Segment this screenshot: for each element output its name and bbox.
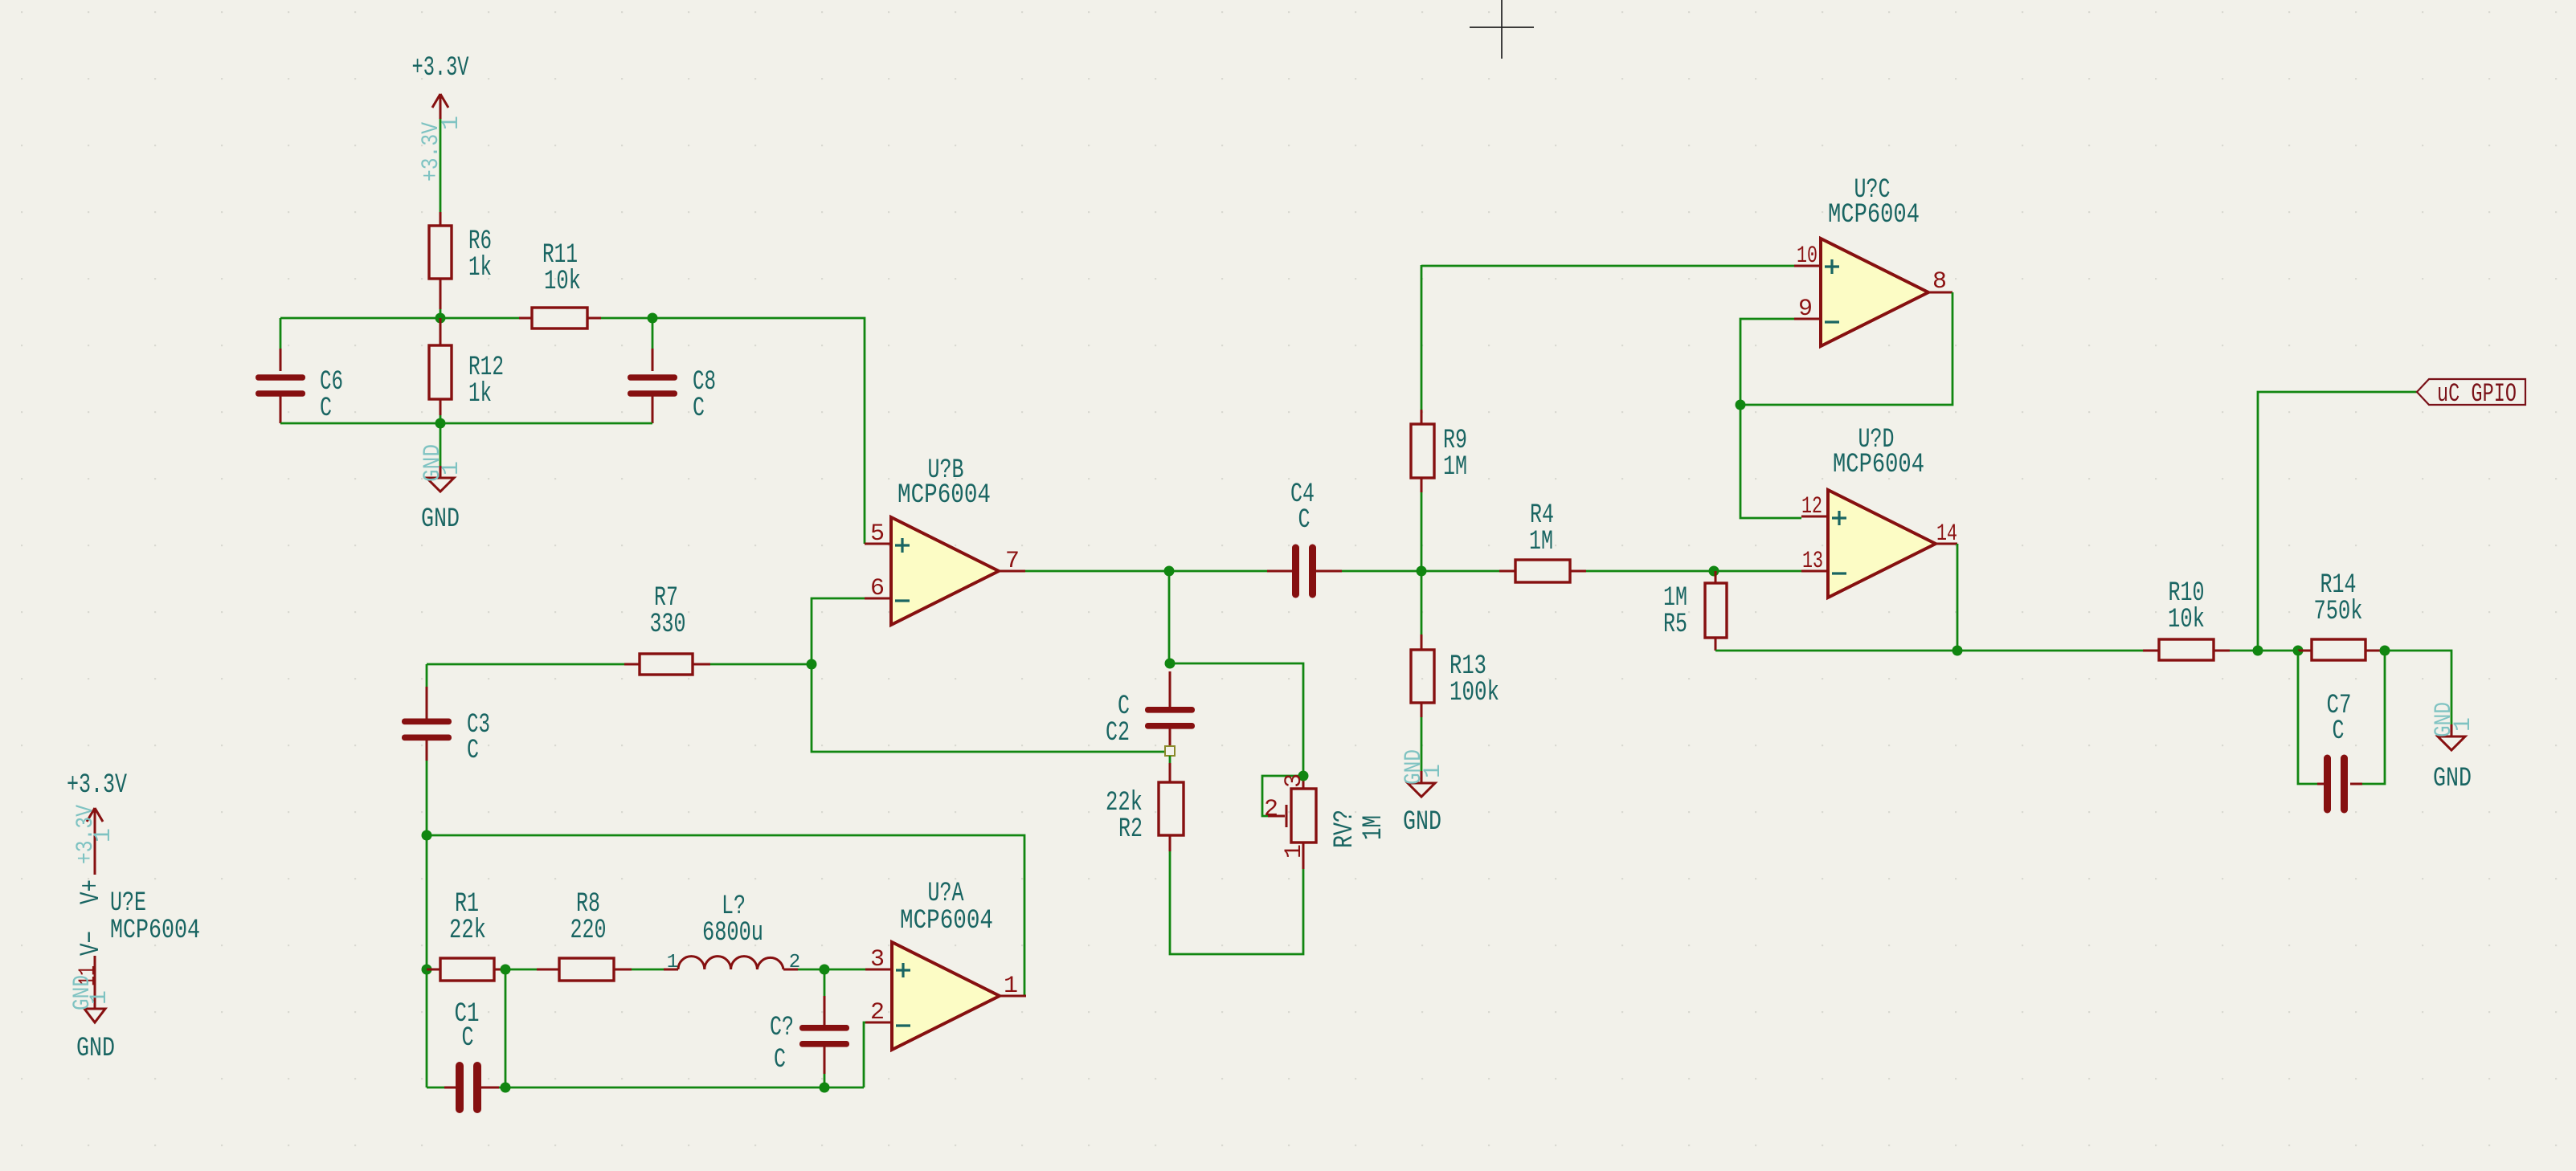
svg-text:10k: 10k	[544, 267, 581, 297]
wire +3.3V to R6	[440, 119, 442, 212]
svg-text:C: C	[693, 394, 705, 424]
svg-text:MCP6004: MCP6004	[110, 916, 200, 946]
resistor R6	[440, 212, 442, 226]
svg-text:RV?: RV?	[1330, 810, 1360, 848]
svg-text:MCP6004: MCP6004	[1828, 200, 1920, 231]
wire RV? wiper to pin3 loop	[1262, 776, 1303, 816]
wire U?B output down to C2 node	[1168, 571, 1171, 663]
capacitor C2	[1169, 671, 1171, 707]
svg-text:5: 5	[870, 520, 885, 548]
svg-text:C?: C?	[770, 1013, 794, 1043]
RV? wiper arrow	[1268, 815, 1285, 818]
resistor R11	[519, 317, 532, 320]
capacitor C?	[824, 969, 826, 996]
svg-text:C: C	[462, 1023, 474, 1054]
ground symbol GND (output)	[2451, 724, 2453, 736]
resistor R7	[427, 663, 624, 666]
U?C pin 8 stub	[1928, 292, 1952, 294]
svg-text:1: 1	[90, 828, 117, 843]
junction R6/R12/R11 node	[435, 313, 446, 324]
U?C pin 10 stub	[1794, 265, 1821, 267]
wire U?C pin9 feedback loop	[1740, 319, 1801, 518]
wire C2 node to RV? branch	[1170, 663, 1303, 776]
U?A pin 1 stub	[1000, 995, 1026, 998]
wire R11 to C8 node	[601, 317, 652, 320]
wire R2 bottom to RV? bottom	[1170, 851, 1303, 954]
svg-text:C: C	[467, 736, 479, 766]
capacitor C7	[2298, 651, 2317, 784]
junction C2 node	[1165, 659, 1176, 669]
svg-text:1: 1	[438, 116, 465, 130]
wire bottom row to U?A pin2 branch	[505, 1087, 864, 1089]
ground symbol GND (R13)	[1421, 771, 1423, 783]
capacitor C4	[1267, 570, 1293, 573]
wire R1/R8 column down	[505, 969, 507, 1087]
junction U?B output node	[1164, 566, 1175, 577]
svg-text:750k: 750k	[2314, 597, 2363, 627]
junction R7/U?B pin6 node	[807, 659, 817, 670]
wire up to U?A pin2	[864, 1022, 865, 1087]
svg-text:1M: 1M	[1359, 815, 1389, 840]
power symbol GND arrow (U?E V-)	[84, 1009, 105, 1022]
wire C3 bottom column	[426, 835, 428, 969]
resistor R2	[1169, 763, 1171, 782]
op-amp U?B MCP6004	[891, 517, 999, 625]
svg-text:6800u: 6800u	[702, 918, 763, 949]
svg-text:1: 1	[1420, 764, 1447, 778]
svg-text:U?A: U?A	[928, 879, 964, 909]
resistor R4	[1421, 570, 1499, 573]
svg-text:22k: 22k	[449, 916, 486, 946]
junction C8 node	[648, 313, 658, 324]
svg-text:1k: 1k	[468, 379, 492, 410]
svg-text:GND: GND	[76, 1034, 115, 1064]
svg-text:C: C	[320, 394, 332, 424]
wire output row to R10	[1957, 650, 2143, 652]
svg-text:1: 1	[86, 990, 113, 1005]
U?C pin 9 stub	[1794, 318, 1821, 320]
unconnected pin marker at C2/R2 node	[1165, 746, 1175, 756]
junction RV? top node	[1298, 771, 1309, 781]
junction U?C feedback node	[1736, 400, 1746, 410]
junction C1 right node	[501, 1083, 511, 1093]
junction R1 left node	[422, 965, 432, 975]
capacitor C8	[652, 318, 654, 349]
U?D pin 13 stub	[1801, 570, 1828, 573]
junction C4/R9/R13/R4 node	[1417, 566, 1427, 577]
svg-text:R2: R2	[1118, 814, 1143, 845]
sheet alignment cross	[1470, 0, 1534, 59]
svg-text:GND: GND	[2433, 764, 2472, 794]
wire U?B output to C4	[1025, 570, 1267, 573]
junction R1/R8 node	[501, 965, 511, 975]
resistor R5	[1715, 571, 1717, 583]
U?E V- pin line	[94, 956, 96, 1009]
power symbol +3.3V (U?E V+)	[94, 808, 96, 875]
U?B pin 7 stub	[999, 570, 1025, 573]
wire C4 node column	[1421, 492, 1423, 571]
svg-text:14: 14	[1936, 520, 1957, 548]
svg-text:1: 1	[2450, 717, 2477, 732]
svg-text:1: 1	[667, 952, 678, 973]
svg-text:C2: C2	[1106, 718, 1130, 749]
U?B pin 6 stub	[865, 598, 891, 600]
resistor R8	[505, 969, 537, 971]
resistor R12	[440, 318, 442, 345]
svg-text:2: 2	[870, 999, 885, 1026]
wire node row y=396	[280, 317, 519, 320]
svg-text:GND: GND	[421, 504, 460, 535]
junction C? bottom node	[820, 1083, 830, 1093]
svg-text:9: 9	[1798, 296, 1813, 323]
svg-text:GND: GND	[1403, 807, 1441, 838]
U?D pin 14 stub	[1936, 543, 1957, 545]
resistor R10	[2143, 650, 2159, 652]
svg-text:R5: R5	[1663, 610, 1687, 640]
resistor R14	[2298, 650, 2312, 652]
svg-text:MCP6004: MCP6004	[900, 906, 993, 936]
svg-text:1k: 1k	[468, 253, 492, 284]
svg-text:12: 12	[1801, 493, 1822, 520]
wire U?B pin6 to feedback corner	[812, 598, 1165, 752]
svg-text:1M: 1M	[1529, 527, 1553, 557]
global label uC GPIO	[2417, 379, 2525, 405]
svg-text:6: 6	[870, 575, 885, 602]
wire ground row y=527	[280, 422, 652, 425]
svg-text:13: 13	[1802, 548, 1823, 575]
svg-text:1: 1	[1281, 844, 1308, 859]
junction uC GPIO tap node	[2253, 646, 2263, 656]
svg-text:1M: 1M	[1443, 452, 1467, 483]
svg-text:1: 1	[438, 461, 465, 475]
svg-text:+3.3V: +3.3V	[67, 770, 127, 801]
wire U?C pin10 long run to R9 top	[1421, 265, 1794, 267]
wire L? to U?A pin3	[783, 969, 798, 971]
svg-text:C: C	[1298, 505, 1310, 536]
wire R14 right to GND	[2385, 651, 2451, 724]
junction C? node	[820, 965, 830, 975]
wire tap node up to uC GPIO label	[2258, 392, 2417, 651]
op-amp U?A MCP6004	[892, 942, 1000, 1050]
svg-text:1: 1	[1004, 973, 1018, 1000]
svg-text:10: 10	[1797, 243, 1818, 270]
wire R1 column down	[426, 969, 428, 1087]
svg-text:220: 220	[570, 916, 607, 946]
junction feedback tap node	[422, 830, 432, 841]
svg-text:V−: V−	[76, 931, 107, 956]
op-amp U?D MCP6004	[1828, 490, 1936, 598]
capacitor C3	[426, 664, 428, 687]
potentiometer RV? body	[1302, 776, 1305, 789]
resistor R1	[427, 969, 440, 971]
junction R4/R5/U?D node	[1709, 566, 1719, 577]
svg-text:C: C	[774, 1045, 786, 1075]
junction R14 right node	[2380, 646, 2390, 656]
U?D pin 12 stub	[1801, 516, 1828, 518]
svg-text:8: 8	[1932, 268, 1947, 296]
svg-text:C: C	[2333, 716, 2345, 747]
svg-text:2: 2	[1264, 796, 1278, 823]
wire feedback top row to U?A output	[427, 835, 1024, 996]
svg-text:uC GPIO: uC GPIO	[2437, 379, 2517, 409]
svg-text:3: 3	[1281, 773, 1308, 788]
wire U?C output to feedback node	[1740, 292, 1952, 405]
junction R14 left node	[2293, 646, 2304, 656]
svg-text:7: 7	[1005, 548, 1020, 575]
wire R4 node to U?D pin13	[1714, 570, 1801, 573]
svg-text:+3.3V: +3.3V	[412, 53, 469, 84]
U?A pin 3 stub	[865, 969, 892, 971]
power symbol +3.3V (top)	[440, 94, 442, 119]
svg-text:MCP6004: MCP6004	[898, 480, 991, 511]
wire C2 to R2	[1169, 756, 1171, 763]
op-amp U?C MCP6004	[1821, 239, 1928, 346]
svg-text:100k: 100k	[1450, 678, 1499, 708]
wire U?D output down to output row	[1957, 544, 1959, 651]
svg-text:330: 330	[650, 610, 686, 640]
junction U?D output node	[1952, 646, 1963, 656]
U?B pin 5 stub	[865, 543, 891, 545]
svg-text:U?E: U?E	[110, 888, 146, 919]
resistor R13	[1421, 571, 1423, 634]
svg-text:3: 3	[870, 946, 885, 973]
resistor R9	[1421, 265, 1423, 410]
svg-text:V+: V+	[76, 879, 107, 904]
svg-text:MCP6004: MCP6004	[1833, 450, 1924, 480]
ground symbol GND (top-left)	[440, 423, 442, 466]
wire C8 node to U?B pin5 (right then down)	[652, 318, 865, 544]
capacitor C1	[427, 1087, 444, 1089]
junction ground node (R12 bottom)	[435, 418, 446, 429]
capacitor C6	[280, 318, 282, 349]
wire R5 bottom row	[1715, 650, 1957, 652]
svg-text:10k: 10k	[2168, 605, 2205, 635]
U?A pin 2 stub	[865, 1022, 892, 1024]
inductor L?	[678, 957, 783, 969]
